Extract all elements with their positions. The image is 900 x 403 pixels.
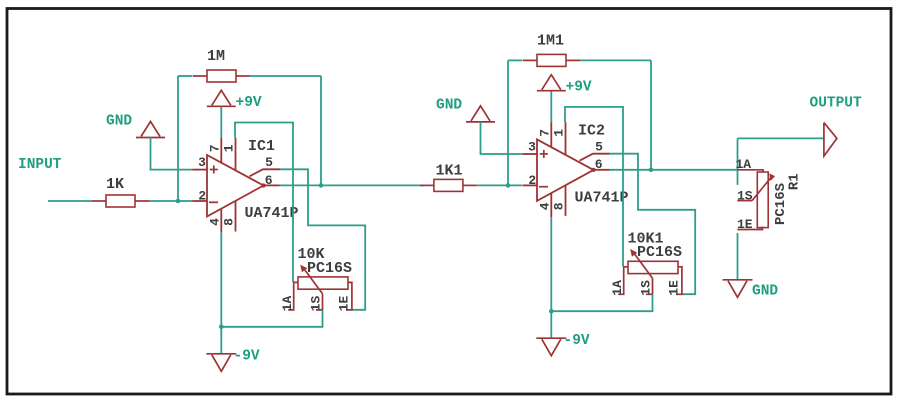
trimmer pin 1A lead <box>618 267 628 295</box>
svg-text:1S: 1S <box>309 296 324 312</box>
wire +9V to pin 7 <box>220 107 222 138</box>
pin 2 lead <box>523 184 538 186</box>
svg-text:1K1: 1K1 <box>436 163 463 180</box>
wire IC2 output to trimmer R1 <box>610 169 738 171</box>
wire from feedback vertical to resistor 1M1 <box>508 59 523 61</box>
ground symbol at IC1 non-inverting input <box>141 122 160 137</box>
svg-text:UA741P: UA741P <box>245 205 299 222</box>
svg-text:-9V: -9V <box>564 333 590 349</box>
wire pin 4 down to -9V <box>220 233 222 354</box>
svg-text:OUTPUT: OUTPUT <box>810 96 863 112</box>
svg-text:4: 4 <box>537 202 552 210</box>
op-amp IC1 UA741P triangle <box>207 155 264 217</box>
svg-text:1S: 1S <box>737 188 753 203</box>
junction at inverting input of IC2 <box>506 183 511 188</box>
wire from resistor 1M1 to output node <box>580 59 651 61</box>
svg-text:2: 2 <box>198 189 206 204</box>
pin 8 lead <box>565 185 567 216</box>
junction at inverting input of IC1 <box>176 199 181 204</box>
svg-text:IC2: IC2 <box>578 122 605 139</box>
ground symbol at R1 <box>723 279 753 281</box>
potentiometer 10K1 PC16S body <box>628 261 678 273</box>
svg-text:1K: 1K <box>106 176 124 193</box>
resistor 1K body <box>92 200 106 202</box>
svg-text:1E: 1E <box>337 296 352 312</box>
pin 2 lead <box>193 200 208 202</box>
svg-text:1: 1 <box>552 129 567 137</box>
svg-text:5: 5 <box>595 139 603 154</box>
svg-text:R1: R1 <box>787 173 803 190</box>
svg-text:+9V: +9V <box>236 95 262 111</box>
svg-text:1M: 1M <box>207 48 225 65</box>
svg-text:3: 3 <box>198 155 206 170</box>
wire wiper 1S to -9V rail <box>221 310 322 327</box>
wire pin 4 down to -9V <box>550 217 552 338</box>
wire IC1 output to 1K1 <box>280 184 425 186</box>
svg-text:1E: 1E <box>737 217 753 232</box>
svg-text:4: 4 <box>207 218 222 226</box>
wire wiper 1S to -9V rail <box>551 294 652 311</box>
non-inverting + marker <box>540 153 548 155</box>
non-inverting + marker <box>210 169 218 171</box>
pin 3 lead <box>193 169 208 171</box>
svg-text:-9V: -9V <box>234 349 260 365</box>
pin 5 lead <box>250 169 281 176</box>
svg-text:1M1: 1M1 <box>537 32 564 49</box>
inverting - marker <box>539 186 548 188</box>
junction on -9V rail to wiper <box>549 309 554 314</box>
pin 8 lead <box>235 201 237 232</box>
trimmer wiper arrow <box>303 268 323 294</box>
inverting - marker <box>209 201 218 203</box>
op-amp IC1 output dot at apex <box>261 183 265 187</box>
svg-text:GND: GND <box>752 284 778 300</box>
junction at output of IC2 <box>649 168 654 173</box>
op-amp IC2 UA741P triangle <box>537 139 594 201</box>
svg-text:6: 6 <box>595 157 603 172</box>
power symbol -9V <box>536 337 566 339</box>
svg-text:1E: 1E <box>667 280 682 296</box>
svg-text:GND: GND <box>436 98 462 114</box>
pin 6 lead <box>264 184 280 186</box>
pin 1 lead <box>565 122 567 155</box>
wire to OUTPUT port <box>738 137 824 139</box>
svg-text:2: 2 <box>528 173 536 188</box>
trimmer pin 1A lead <box>288 282 298 310</box>
potentiometer 10K PC16S body <box>298 277 348 289</box>
pin 1 lead <box>235 138 237 171</box>
svg-text:PC16S: PC16S <box>307 260 352 277</box>
svg-text:+9V: +9V <box>566 79 592 95</box>
wire pin 1 to trimmer 1A <box>235 123 293 283</box>
wire pin 5 to trimmer 1E <box>610 154 695 295</box>
svg-text:PC16S: PC16S <box>637 244 682 261</box>
wire pin 1 to trimmer 1A <box>565 107 623 267</box>
wire feedback right vertical down to output of IC1 <box>320 76 322 185</box>
svg-text:5: 5 <box>265 155 273 170</box>
op-amp IC2 output dot at apex <box>591 168 595 172</box>
svg-text:IC1: IC1 <box>248 138 275 155</box>
wire pin 5 to trimmer 1E <box>280 169 365 309</box>
wire feedback left vertical net of 1M1 <box>507 60 509 185</box>
trimmer R1 pin 1A lead <box>738 170 764 172</box>
pin 7 lead <box>550 122 552 148</box>
power symbol +9V <box>542 75 561 90</box>
wire from ground symbol to pin 3 <box>481 122 523 154</box>
trimmer pin 1E lead <box>346 282 352 310</box>
ground symbol at IC2 non-inverting input <box>471 106 490 121</box>
pin 6 lead <box>594 169 610 171</box>
junction at output of IC1 <box>319 183 324 188</box>
pin 4 lead <box>220 209 222 232</box>
trimmer pin 1S lead <box>646 278 653 294</box>
svg-text:GND: GND <box>106 113 132 129</box>
svg-text:3: 3 <box>528 139 536 154</box>
svg-text:1S: 1S <box>639 280 654 296</box>
wire 1K to IC1 inverting input <box>149 200 193 202</box>
trimmer wiper arrow <box>633 252 653 278</box>
resistor 1M body <box>193 75 207 77</box>
svg-text:1A: 1A <box>610 280 625 296</box>
resistor 1M1 body <box>523 59 537 61</box>
pin 4 lead <box>550 194 552 217</box>
svg-text:UA741P: UA741P <box>575 189 629 206</box>
wire +9V to pin 7 <box>550 91 552 122</box>
trimmer pin 1S lead <box>316 294 323 310</box>
wire R1 1E down to ground <box>737 233 739 280</box>
wire feedback left vertical net of 1M <box>177 76 179 201</box>
pin 5 lead <box>580 154 611 161</box>
pin 3 lead <box>523 153 538 155</box>
trimmer R1 pin 1E lead <box>737 227 762 230</box>
svg-text:1A: 1A <box>280 296 295 312</box>
svg-text:6: 6 <box>265 173 273 188</box>
svg-text:INPUT: INPUT <box>18 157 62 173</box>
svg-text:7: 7 <box>207 144 222 152</box>
wire input <box>48 200 92 202</box>
svg-text:1A: 1A <box>736 157 752 172</box>
trimmer R1 pin 1S lead <box>737 200 752 202</box>
trimmer pin 1E lead <box>676 267 682 295</box>
trimmer R1 wiper arrow <box>752 177 772 201</box>
svg-text:8: 8 <box>552 202 567 210</box>
wire output node up to OUTPUT arrow <box>737 138 739 184</box>
pin 7 lead <box>220 138 222 164</box>
junction on -9V rail to wiper <box>219 325 224 330</box>
trimmer R1 PC16S body <box>757 172 768 228</box>
wire from ground symbol to pin 3 <box>151 138 193 170</box>
resistor 1K1 body <box>420 184 434 186</box>
wire from feedback vertical to resistor 1M <box>178 75 193 77</box>
wire 1K1 to IC2 inverting input <box>477 184 522 186</box>
svg-text:7: 7 <box>537 129 552 137</box>
power symbol -9V <box>206 353 236 355</box>
svg-text:1: 1 <box>222 144 237 152</box>
power symbol +9V <box>212 90 231 105</box>
wire feedback right vertical down to output of IC2 <box>650 60 652 169</box>
wire from resistor 1M to output node <box>250 75 321 77</box>
OUTPUT port arrow <box>824 123 837 157</box>
svg-text:8: 8 <box>222 218 237 226</box>
